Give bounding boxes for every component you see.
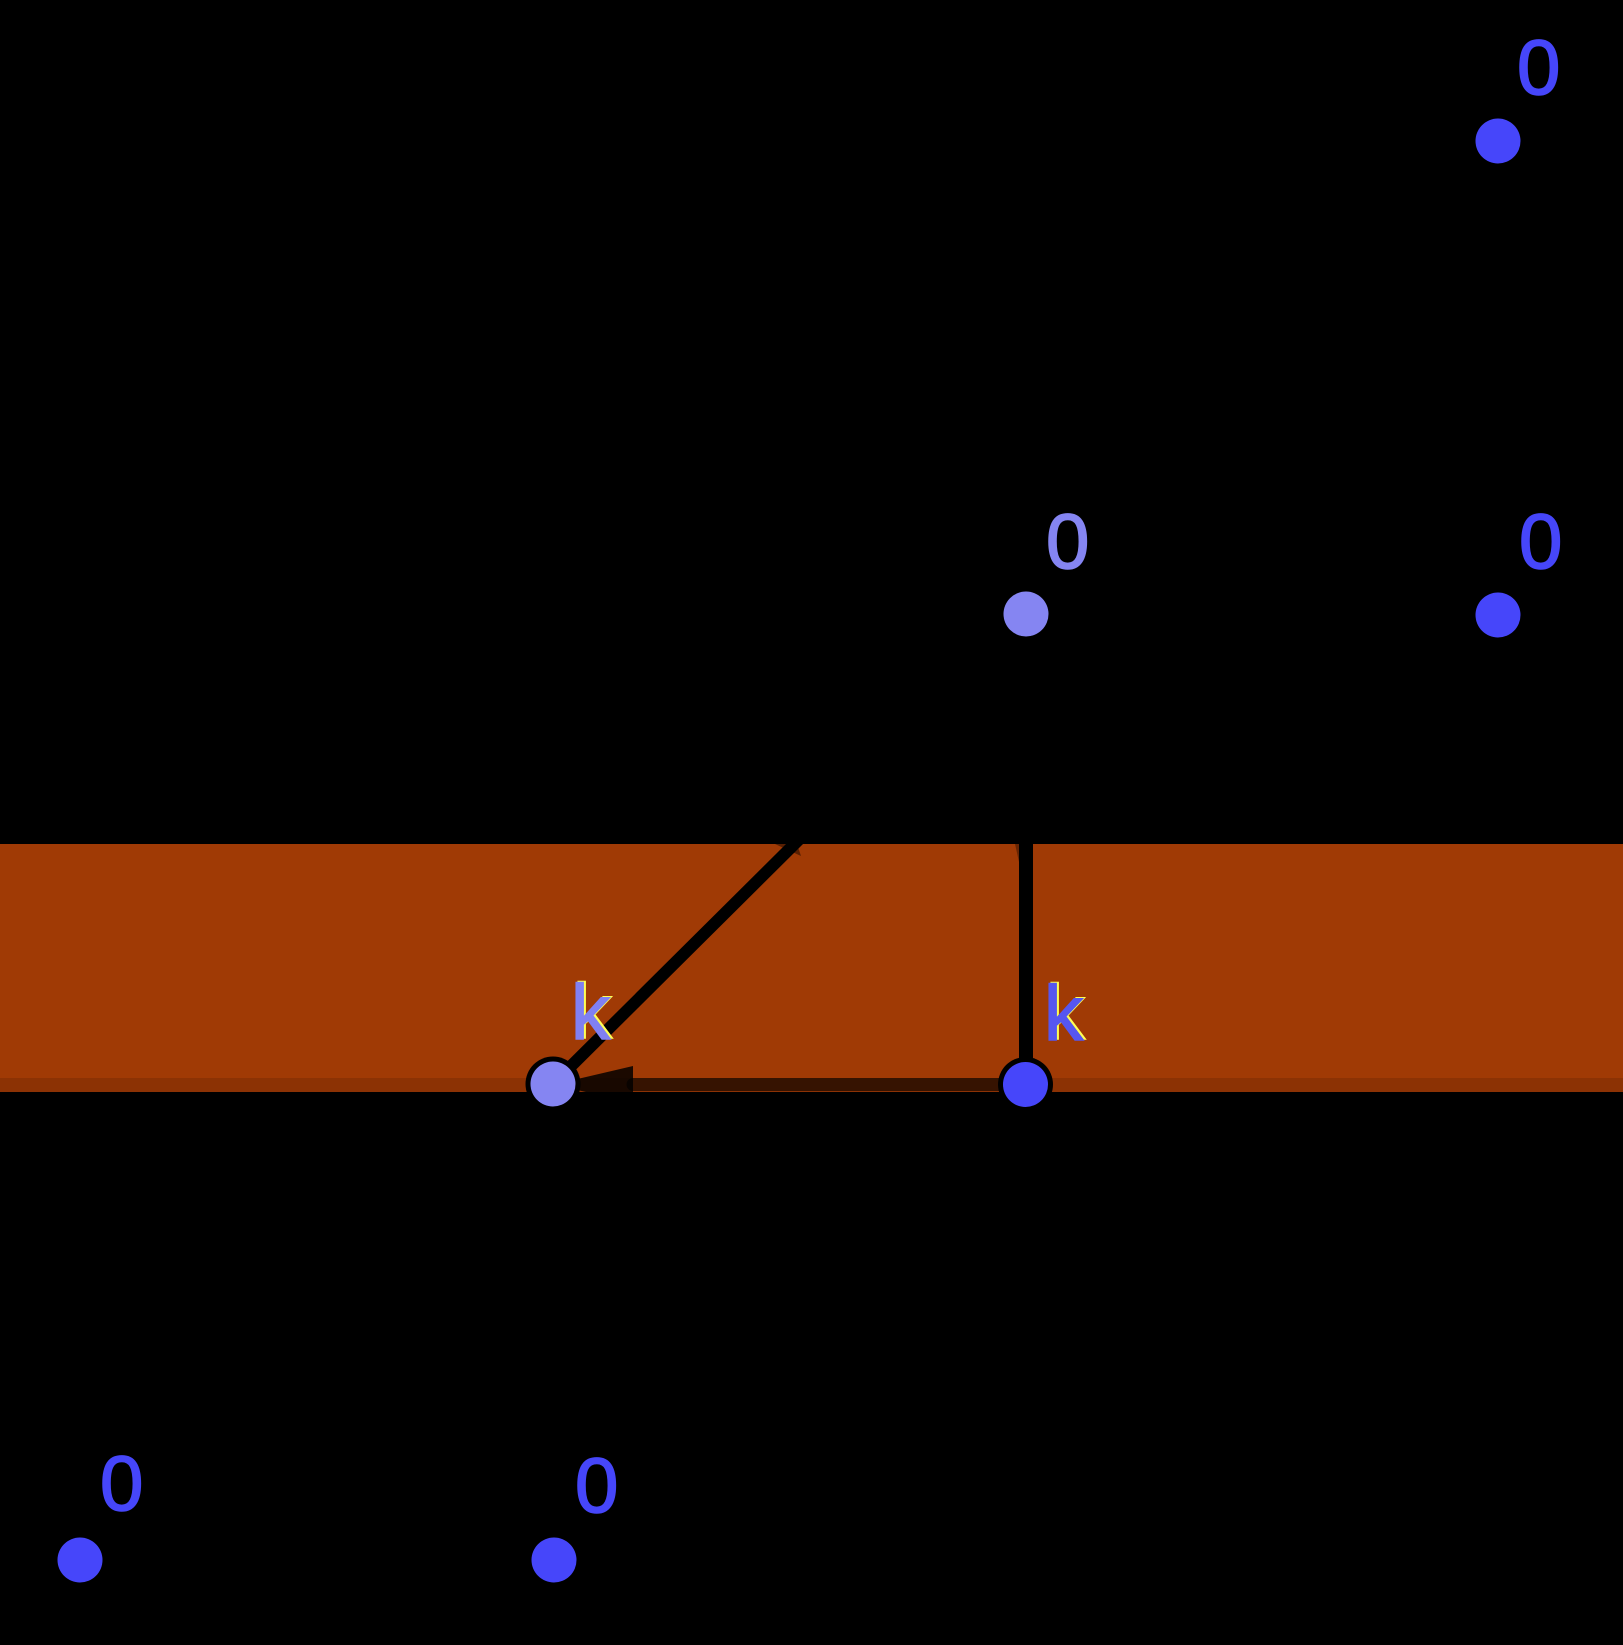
band (horizontal strip region)	[0, 844, 1623, 1092]
node: bottom-middle 0-dot	[527, 1533, 582, 1588]
svg-text:0: 0	[1517, 23, 1560, 111]
wire: diagonal vector from middle 0-dot to left k-dot	[553, 614, 1026, 1084]
svg-text:0: 0	[1046, 497, 1089, 585]
node: right 0-dot	[1471, 588, 1526, 643]
node: bottom-left 0-dot	[53, 1533, 108, 1588]
wire: vector stem from right k-dot to left k-dot (dimmed)	[627, 1078, 1026, 1091]
node: top-right 0-dot	[1471, 114, 1526, 169]
wire: vertical vector from middle 0-dot to right k-dot	[1019, 614, 1033, 1085]
svg-text:0: 0	[1519, 497, 1562, 585]
svg-text:0: 0	[575, 1441, 618, 1529]
svg-text:k: k	[1044, 969, 1084, 1057]
svg-text:k: k	[571, 968, 611, 1056]
faint line through k-dots (full width)	[0, 1078, 1623, 1092]
node: left k-dot (light)	[526, 1057, 581, 1112]
node: right k-dot	[998, 1057, 1053, 1112]
wire: dim wedge where diagonal crosses band top	[775, 844, 801, 856]
node: middle 0-dot (light)	[999, 587, 1054, 642]
wire: dim sliver where vertical crosses band top	[1015, 844, 1019, 862]
svg-text:0: 0	[100, 1439, 143, 1527]
wire: arrowhead of horizontal vector at left k-dot	[554, 1066, 633, 1103]
